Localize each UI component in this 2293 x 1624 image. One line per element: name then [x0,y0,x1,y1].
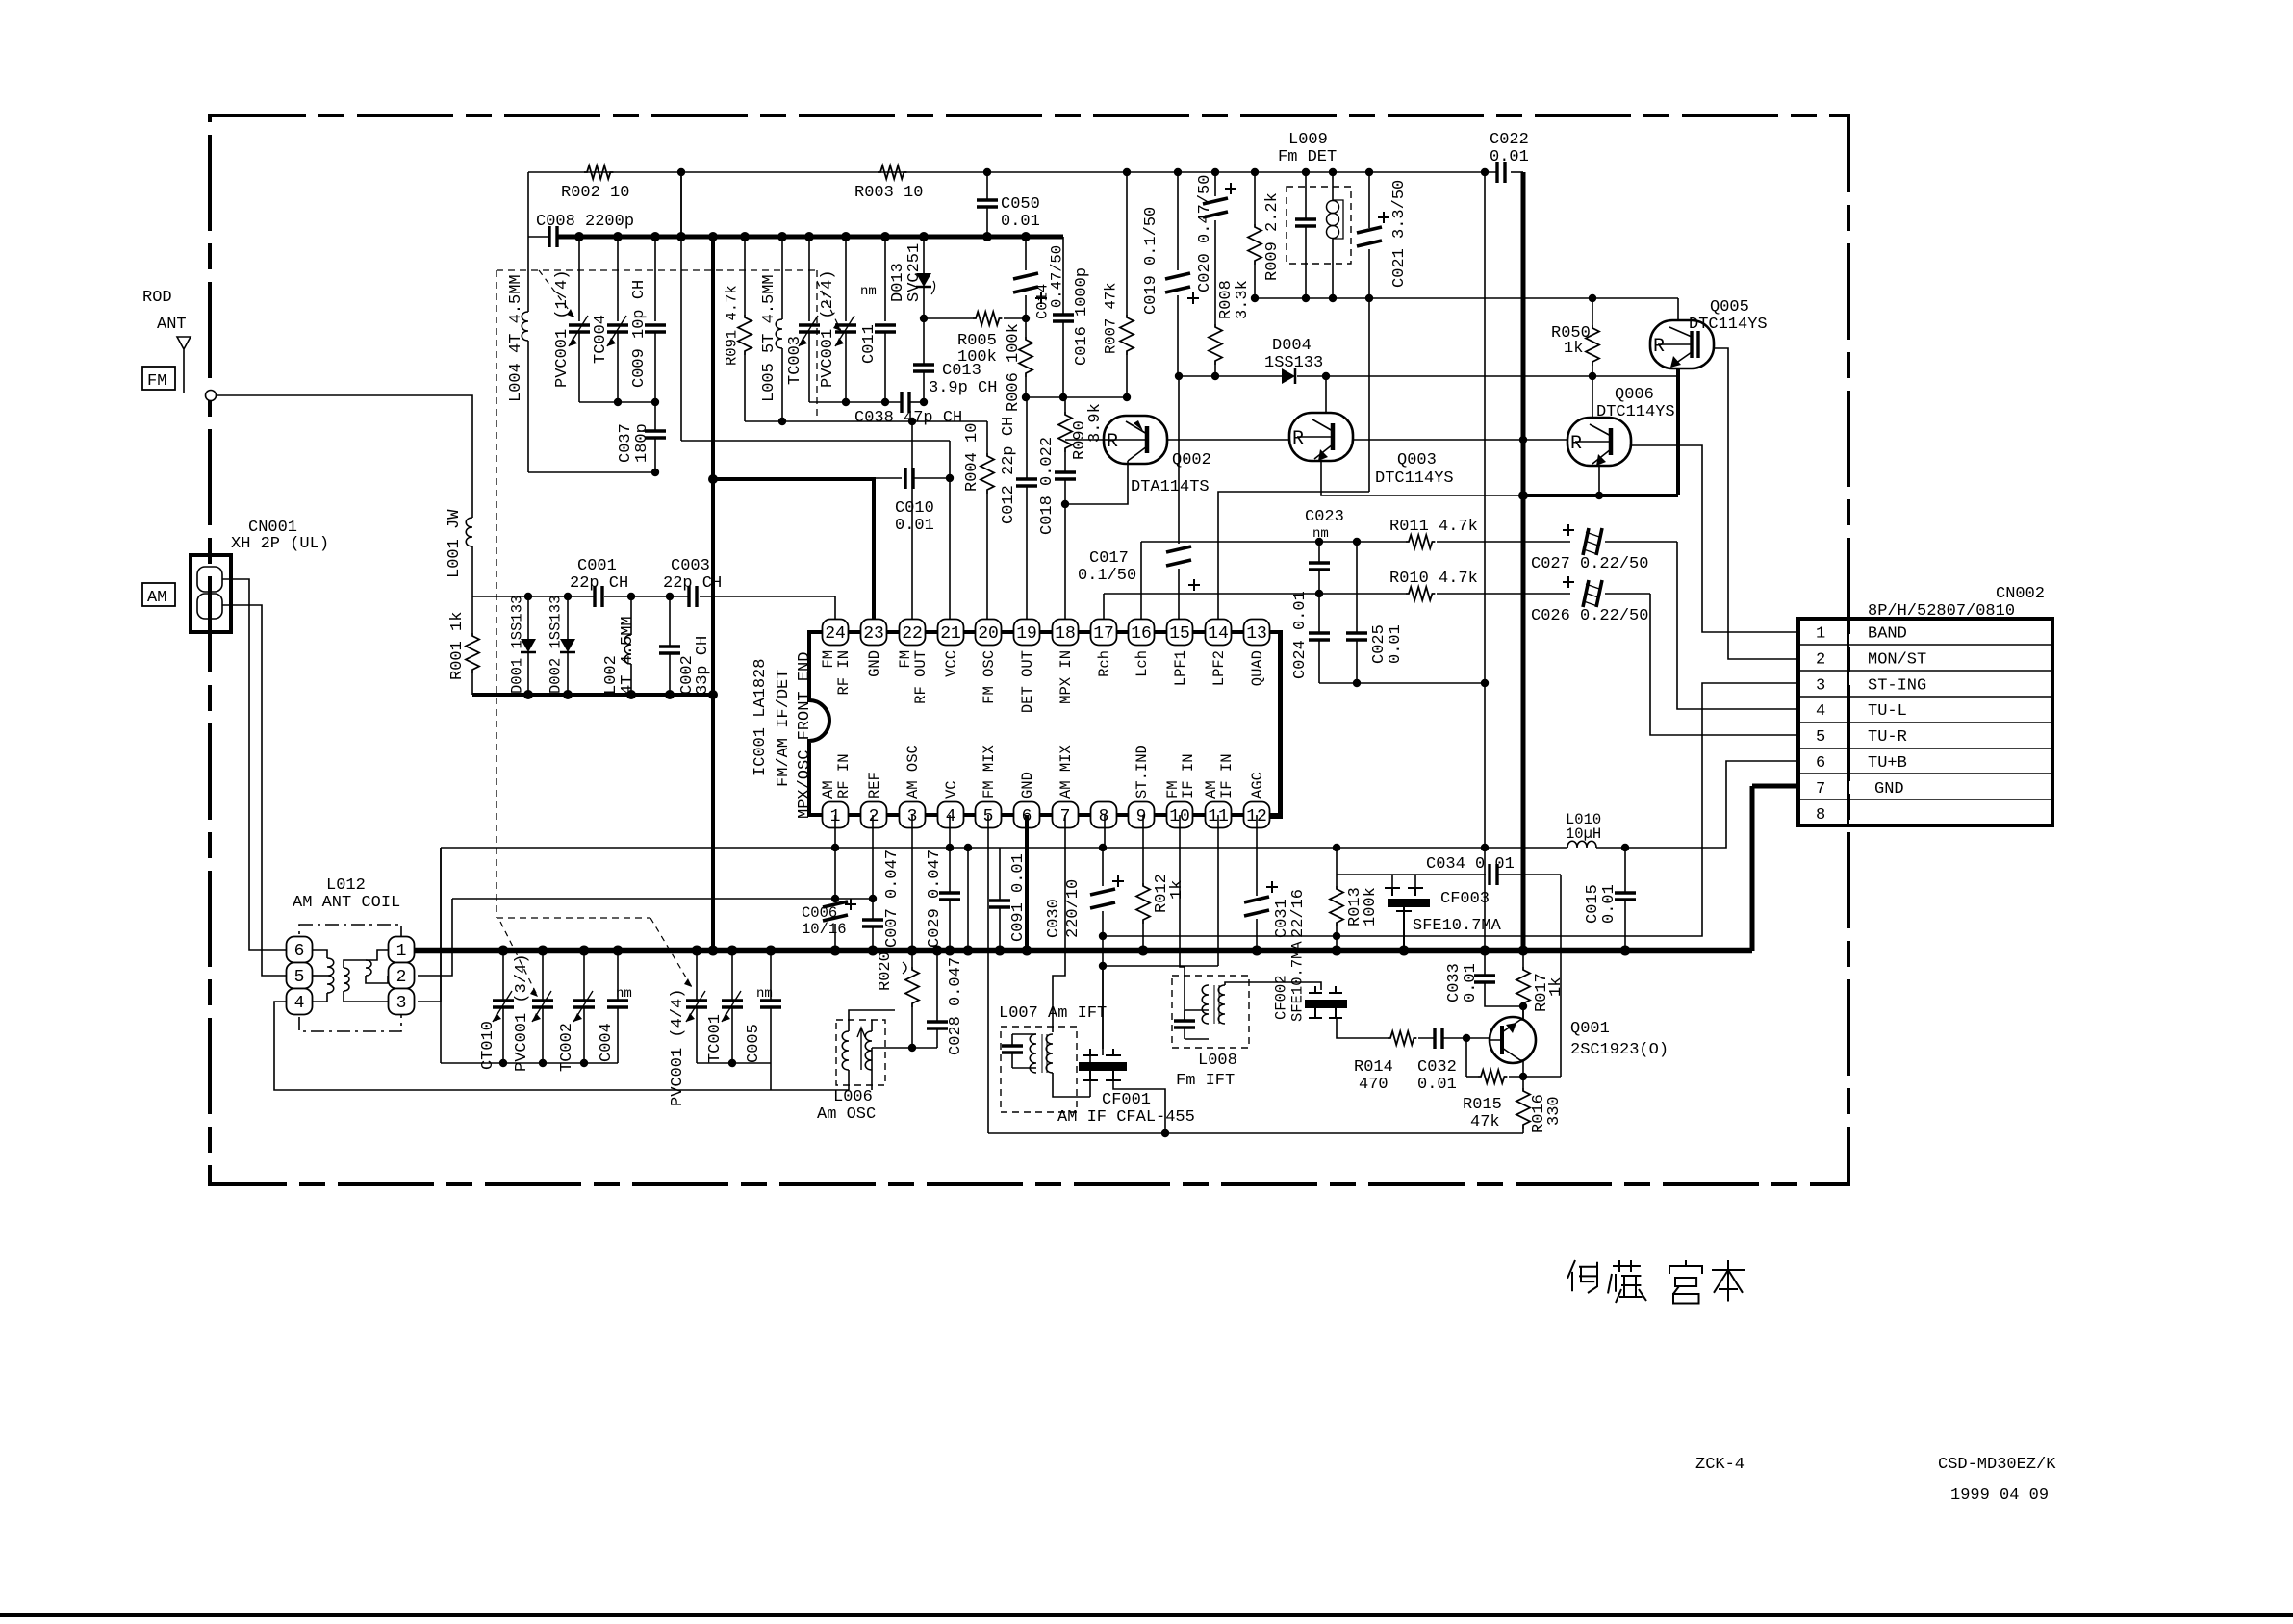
svg-text:330: 330 [1545,1096,1564,1126]
svg-text:C006: C006 [802,904,837,922]
svg-text:GND: GND [866,650,883,677]
svg-text:180p: 180p [633,423,651,463]
trimmer PVC001 (4/4) [696,951,698,1001]
capacitor C007 0.047 [872,815,874,920]
svg-text:DTC114YS: DTC114YS [1375,469,1454,488]
capacitor C003 22p CH [689,586,697,607]
svg-text:2: 2 [396,968,407,987]
wire AM row y=620 [472,596,595,597]
svg-text:Am OSC: Am OSC [817,1105,876,1124]
svg-text:AGC: AGC [1249,772,1266,799]
svg-text:0.1/50: 0.1/50 [1078,567,1136,585]
svg-text:IC001 LA1828: IC001 LA1828 [752,659,770,776]
wire y=310 row [1255,297,1678,299]
svg-text:21: 21 [940,624,961,644]
capacitor C019 0.1/50 [1177,172,1179,270]
wire GND heavy to row7 [1752,784,1798,789]
wire L012 pin3 riser [418,848,441,1002]
svg-text:FM: FM [147,372,166,391]
svg-text:R011 4.7k: R011 4.7k [1389,518,1478,536]
svg-text:nm: nm [616,986,632,1002]
svg-text:C018 0.022: C018 0.022 [1038,437,1057,535]
svg-text:R003 10: R003 10 [854,184,923,202]
svg-text:R004 10: R004 10 [963,423,981,492]
resistor R020 [911,815,913,967]
svg-text:17: 17 [1093,624,1114,644]
capacitor C022 0.01 [1497,162,1505,183]
svg-text:R: R [1107,431,1118,453]
varactor D013 SVC251 [923,237,925,273]
svg-text:C034 0.01: C034 0.01 [1426,855,1515,874]
capacitor C008 2200p [549,226,557,247]
wire AM caps bottom rail y=1105 [441,1062,618,1064]
capacitor C038 47p CH [902,392,909,413]
wire AM row ground rail y=722 thick [472,693,713,697]
wire thick y=498 to pin23 GND riser [713,479,874,620]
wire rail y=413 [1026,396,1127,398]
svg-text:LPF1: LPF1 [1172,650,1189,686]
diode D001 1SS133 [527,596,529,639]
wire ST-ING to row3 [1103,683,1798,936]
svg-text:RF OUT: RF OUT [912,650,930,704]
svg-text:CSD-MD30EZ/K: CSD-MD30EZ/K [1938,1456,2056,1474]
svg-text:BAND: BAND [1868,625,1907,644]
wire y=710 [1319,682,1485,684]
svg-text:DTA114TS: DTA114TS [1131,478,1210,496]
svg-text:D002 1SS133: D002 1SS133 [548,596,565,694]
svg-text:18: 18 [1055,624,1076,644]
svg-text:IF IN: IF IN [1180,753,1197,799]
svg-text:9: 9 [1136,807,1147,826]
wire rail y=418 right with C038 [809,401,902,403]
svg-text:TU+B: TU+B [1868,754,1907,773]
svg-text:C026 0.22/50: C026 0.22/50 [1531,607,1648,625]
svg-text:C020 0.47/50: C020 0.47/50 [1196,175,1214,292]
svg-text:R007 47k: R007 47k [1103,283,1120,354]
capacitor C009 10p CH [654,237,656,321]
resistor R016 330 [1516,1088,1530,1129]
resistor R009 2.2k [1254,172,1256,224]
capacitor C014 0.47/50 [1025,237,1027,270]
wire y=458 row [681,440,950,442]
svg-text:GND: GND [1874,780,1904,799]
svg-text:C030: C030 [1045,899,1063,938]
svg-text:IF IN: IF IN [1218,753,1236,799]
svg-text:ROD: ROD [142,289,172,307]
svg-text:FM/AM IF/DET: FM/AM IF/DET [775,670,793,787]
svg-text:nm: nm [756,986,773,1002]
svg-text:R: R [1653,336,1665,358]
svg-text:SFE10.7MA: SFE10.7MA [1289,941,1307,1022]
wire pin21 VCC riser [949,441,951,619]
svg-text:0.01: 0.01 [1600,884,1618,924]
wire pin16 riser to R011 row [1140,542,1142,619]
svg-text:LPF2: LPF2 [1210,650,1228,686]
wire Q002 emitter to y=524 [1065,461,1128,504]
svg-text:100k: 100k [957,348,997,367]
dashed tuning-pack enclosure [497,270,817,918]
capacitor C015 0.01 [1624,848,1626,893]
svg-text:L001 JW: L001 JW [446,509,464,578]
svg-text:PVC001 (2/4): PVC001 (2/4) [819,270,837,388]
wire top rail y=179 [528,171,1497,173]
capacitor C011 nm [884,237,886,321]
wire pin1 riser [834,815,836,848]
svg-text:13: 13 [1246,624,1267,644]
svg-text:10/16: 10/16 [802,921,847,938]
svg-text:4T 4.5MM: 4T 4.5MM [619,616,637,695]
capacitor C050 0.01 [986,172,988,200]
svg-text:C022: C022 [1490,131,1529,149]
capacitor C031 22/16 [1256,815,1258,896]
antenna symbol [177,337,191,393]
filter CF001 AM IF CFAL-455 [1089,1055,1091,1097]
svg-text:C024 0.01: C024 0.01 [1291,591,1310,679]
filter CF002 SFE10.7MA [1309,986,1342,993]
svg-text:FM OSC: FM OSC [981,650,998,704]
svg-text:220/10: 220/10 [1064,879,1083,938]
resistor R015 47k [1466,1076,1478,1078]
capacitor C091 0.01 [999,848,1001,901]
svg-text:R: R [1570,433,1582,455]
svg-text:R: R [1292,428,1304,450]
label FM box [142,367,175,390]
wire bus y=246 thick [528,236,549,238]
svg-text:DET OUT: DET OUT [1019,650,1036,713]
svg-text:20: 20 [978,624,999,644]
svg-text:R006 100k: R006 100k [1005,323,1023,412]
svg-text:VCC: VCC [943,650,960,677]
variable capacitor PVC001 (1/4) [578,237,580,321]
wire Q002 base [1065,439,1104,441]
L012 windings [313,950,327,958]
svg-text:FM MIX: FM MIX [981,744,998,799]
svg-text:0.01: 0.01 [1001,213,1040,231]
wire C034 right leg down [1560,875,1562,1077]
filter CF003 SFE10.7MA [1391,875,1393,888]
svg-text:D001 1SS133: D001 1SS133 [509,596,526,694]
svg-text:2: 2 [1816,650,1825,669]
wire R002 tap to bus [680,172,682,237]
svg-text:GND: GND [1019,772,1036,799]
wire CN001 pin1 to L012 pin6 [222,579,289,950]
wire y=1004 [1103,965,1218,967]
wire rail to L006 [770,1063,772,1090]
capacitor C029 0.047 [949,815,951,893]
svg-text:22: 22 [902,624,923,644]
svg-text:Fm IFT: Fm IFT [1176,1072,1235,1090]
svg-text:5: 5 [1816,728,1825,747]
svg-text:L009: L009 [1288,131,1328,149]
capacitor C037 180p [645,431,666,438]
svg-text:0.01: 0.01 [1387,624,1405,664]
IC IC001 LA1828 body outline [809,632,1280,815]
capacitor C002 33p CH [669,596,671,647]
capacitor C034 0.01 [1490,864,1497,885]
resistor R004 10 [986,421,988,453]
resistor R010 4.7k row [1104,593,1406,595]
wire x=1006 drop [967,848,969,951]
junction dots on top rail [677,168,685,176]
wire Q006 emitter [1598,465,1600,495]
transistor Q006 DTC114YS [1592,376,1593,419]
svg-text:4: 4 [946,807,956,826]
resistor R090 3.9k [1064,397,1066,412]
svg-text:2: 2 [869,807,879,826]
capacitor C001 22p CH [595,586,602,607]
IC001 bottom pins 1-12 [823,802,849,828]
svg-text:14: 14 [1208,624,1229,644]
svg-text:Fm DET: Fm DET [1278,148,1337,166]
trimmer PVC001 (3/4) [542,951,544,1001]
svg-text:R009 2.2k: R009 2.2k [1263,192,1282,281]
wire to CN002 row5 TU-R [1650,594,1798,735]
wire heavy y=515 joining bus [1523,494,1678,497]
wire L006 legs [848,1020,850,1031]
svg-text:19: 19 [1016,624,1037,644]
capacitor C020 0.47/50 [1214,172,1216,196]
dashed gang link arrows [539,270,574,317]
svg-text:R015: R015 [1463,1096,1502,1114]
svg-text:1k: 1k [1168,880,1186,900]
svg-text:7: 7 [1816,780,1825,799]
svg-text:23: 23 [863,624,884,644]
svg-text:4: 4 [1816,702,1825,721]
wire Q001 base tap [1465,1038,1467,1077]
svg-text:3: 3 [396,994,407,1013]
svg-text:16: 16 [1131,624,1152,644]
svg-text:C009 10p CH: C009 10p CH [630,280,649,388]
trimmer CT010 [502,951,504,1001]
wire Q005 collector to CN002 row2 [1714,348,1798,659]
svg-text:8: 8 [1816,806,1825,825]
wire L006 top to R020 rail [849,1010,895,1020]
bottom scan edge line [0,1613,2293,1617]
svg-text:TC003: TC003 [786,336,804,385]
capacitor C013 3.9p CH [913,365,934,371]
svg-text:ST.IND: ST.IND [1134,745,1151,799]
wire pin14 riser to C021 column [1218,492,1369,619]
svg-text:Lch: Lch [1134,650,1151,677]
inductor L002 4T 4.5MM [630,596,632,635]
svg-text:C004: C004 [598,1023,616,1062]
svg-text:L004 4T 4.5MM: L004 4T 4.5MM [507,274,525,402]
resistor R091 4.7k [744,237,746,315]
capacitor C004 [617,951,619,1001]
svg-text:0.01: 0.01 [895,517,934,535]
svg-text:C027 0.22/50: C027 0.22/50 [1531,555,1648,573]
resistor R013 100k [1336,848,1338,886]
svg-text:1k: 1k [1564,340,1583,358]
wire rail y=491 [528,471,655,473]
capacitor C030 220/10 [1102,848,1104,886]
svg-text:24: 24 [825,624,846,644]
wire pin22 riser [911,421,913,619]
wire left end down to C008 [527,172,529,237]
svg-text:Rch: Rch [1096,650,1113,677]
resistor R008 3.3k [1209,324,1222,365]
wire pin17 riser to R010 row [1103,594,1105,619]
svg-text:C007 0.047: C007 0.047 [883,850,902,948]
capacitor C021 3.3/50 [1368,172,1370,228]
node FM antenna open circle [206,391,217,401]
inductor L001 JW [466,518,472,546]
svg-text:DTC114YS: DTC114YS [1596,403,1675,421]
svg-text:0.01: 0.01 [1490,148,1529,166]
svg-text:C028 0.047: C028 0.047 [947,957,965,1055]
wire to L012 pin4 via bottom [274,1002,849,1090]
svg-text:4: 4 [294,994,305,1013]
wire L008 to CF002 [1225,982,1321,990]
svg-text:C050: C050 [1001,195,1040,214]
svg-text:1: 1 [1816,625,1825,644]
wire thick FM bus down x=741 [711,237,715,951]
wire main right thick bus x=1583 [1521,172,1526,951]
wire L007 to CF001 [1053,1073,1090,1097]
svg-text:470: 470 [1359,1076,1389,1094]
wire rail y=1089 [872,1047,937,1049]
capacitor C012 22p CH [1026,397,1028,479]
svg-text:R014: R014 [1354,1058,1393,1077]
svg-text:10µH: 10µH [1566,825,1601,843]
svg-text:C038 47p CH: C038 47p CH [854,409,962,427]
svg-text:Q006: Q006 [1615,386,1654,404]
svg-text:3.9p CH: 3.9p CH [929,379,997,397]
wire y=881 row [441,847,1567,849]
resistor R011 4.7k row [1141,541,1406,543]
svg-text:RF IN: RF IN [835,753,853,799]
resistor R014 470 [1388,1031,1416,1045]
svg-text:MPX/OSC FRONT END: MPX/OSC FRONT END [796,652,814,819]
wire L010 row to TU+B row6 [1625,761,1798,848]
svg-text:C003: C003 [671,557,710,575]
wire pin10 riser to L008 [1180,815,1185,1021]
wire x=1543 long vertical [1484,172,1486,951]
svg-text:33p CH: 33p CH [694,636,712,695]
svg-text:PVC001 (3/4): PVC001 (3/4) [513,954,531,1072]
wire CF001 right leg [1113,1080,1165,1133]
svg-text:Q003: Q003 [1397,451,1437,469]
svg-text:TC001: TC001 [706,1014,725,1063]
svg-text:L006: L006 [833,1088,873,1106]
svg-text:ANT: ANT [157,316,187,334]
capacitor C025 0.01 [1356,542,1358,633]
wire CF002 to R014 [1337,1018,1388,1038]
svg-text:C016 1000p: C016 1000p [1073,267,1091,366]
svg-text:PVC001 (1/4): PVC001 (1/4) [553,270,572,388]
svg-text:C029 0.047: C029 0.047 [926,850,944,948]
wire Q005 emitter thick [1676,368,1680,495]
wire Q003 emitter [1321,461,1523,495]
wire pin13 QUAD thick trace [1268,632,1281,817]
svg-text:XH 2P (UL): XH 2P (UL) [231,535,329,553]
svg-text:8: 8 [1099,807,1109,826]
svg-text:TC002: TC002 [558,1023,576,1072]
wire Q006 collector to CN002 row1 [1632,445,1798,632]
CN002 divider / frame crossing [1847,619,1849,825]
inductor L005 5T 4.5MM [781,237,783,319]
label AM box [142,583,175,606]
wire pin11 riser [1217,815,1219,966]
capacitor C016 1000p [1062,237,1064,315]
svg-text:AM MIX: AM MIX [1057,744,1075,799]
resistor R003 10 [878,165,906,179]
svg-text:6: 6 [294,942,305,961]
svg-text:C011: C011 [860,324,879,364]
transistor Q001 2SC1923(O) [1490,1017,1536,1063]
svg-text:AM OSC: AM OSC [904,745,922,799]
svg-text:C019 0.1/50: C019 0.1/50 [1142,207,1160,315]
svg-text:AM IF CFAL-455: AM IF CFAL-455 [1057,1108,1195,1127]
diode D002 1SS133 [567,596,569,639]
svg-text:R091 4.7k: R091 4.7k [724,285,741,366]
resistor R001 1k [471,596,473,633]
capacitor C032 0.01 [1418,1037,1435,1039]
wire Q003 collector to bus x1583 and Q006 base [1353,437,1523,440]
svg-text:RF IN: RF IN [835,650,853,696]
wire CN001 pin2 to L012 pin5 [222,605,289,976]
capacitor C027 0.22/50 [1583,528,1602,555]
svg-text:0.01: 0.01 [1462,963,1480,1002]
svg-text:Q005: Q005 [1710,298,1749,317]
resistor R005 100k [924,317,973,319]
trimmer TC004 [617,237,619,321]
svg-text:L007 Am IFT: L007 Am IFT [999,1004,1107,1023]
wire y=934 row [452,898,873,900]
wire FM antenna to tuner [216,395,472,518]
wire x=708 top tap [680,172,682,441]
svg-text:C001: C001 [577,557,617,575]
svg-text:Q001: Q001 [1570,1020,1610,1038]
capacitor C005 [770,951,772,1001]
wire pin6 GND thick [1025,815,1029,951]
transistor Q002 DTA114TS [1104,416,1167,464]
svg-text:C012 22p CH: C012 22p CH [1000,417,1018,524]
svg-text:15: 15 [1169,624,1190,644]
wire pin7 riser to L007 [1053,815,1065,1032]
svg-text:C010: C010 [895,499,934,518]
svg-text:1SS133: 1SS133 [1264,354,1323,372]
svg-text:2SC1923(O): 2SC1923(O) [1570,1041,1669,1059]
wire to CN002 row4 TU-L [1677,542,1798,709]
resistor R006 100k [1025,318,1027,337]
svg-text:100k: 100k [1362,887,1380,926]
resistor R002 10 [584,165,613,179]
capacitor C006 10/16 [834,848,836,899]
svg-text:D004: D004 [1272,337,1312,355]
wire bottom rail y=1178 [988,1132,1523,1134]
svg-text:22p CH: 22p CH [570,574,628,593]
inductor L004 4T 4.5MM [527,237,529,312]
resistor R012 1k [1142,815,1144,883]
svg-text:SFE10.7MA: SFE10.7MA [1413,917,1502,935]
svg-text:C023: C023 [1305,508,1344,526]
frame border dash-dot [210,115,1848,1184]
svg-text:3: 3 [1816,676,1825,695]
svg-text:L008: L008 [1198,1052,1237,1070]
svg-text:AM: AM [147,589,166,607]
signature kanji itou miyamoto [1567,1260,1597,1293]
wire pin5 riser long [987,815,989,1133]
svg-text:PVC001 (4/4): PVC001 (4/4) [669,989,687,1106]
svg-text:nm: nm [1312,526,1329,542]
trimmer TC002 [583,951,585,1001]
svg-text:1: 1 [396,942,407,961]
svg-text:MPX IN: MPX IN [1057,650,1075,704]
svg-text:1k: 1k [1547,977,1566,997]
svg-text:CF002: CF002 [1273,975,1290,1020]
wire Q001 collector [1520,1006,1523,1020]
